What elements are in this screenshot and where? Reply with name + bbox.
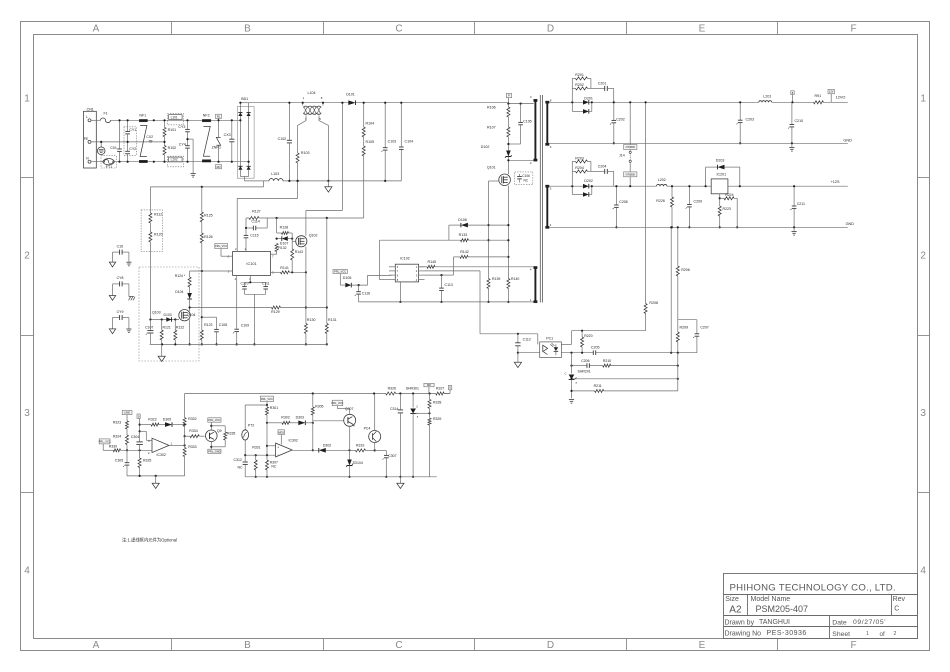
svg-text:R132: R132 — [278, 246, 286, 250]
wire IC101 pin2 to DC- rail — [236, 198, 238, 251]
svg-text:PT2: PT2 — [248, 423, 254, 427]
svg-text:4: 4 — [24, 566, 30, 577]
net label small box above C304 — [137, 414, 140, 418]
svg-text:C114: C114 — [251, 219, 259, 223]
wire opamp2 output row — [292, 449, 319, 451]
resistor R112 — [141, 210, 162, 252]
svg-text:3: 3 — [24, 408, 30, 419]
svg-text:R335: R335 — [227, 432, 235, 436]
svg-text:SHR301: SHR301 — [406, 387, 419, 391]
svg-text:IC201: IC201 — [717, 172, 727, 176]
wire feedback row 1 — [561, 352, 593, 354]
svg-text:L202: L202 — [658, 178, 666, 182]
svg-text:L104: L104 — [308, 91, 316, 95]
wire gate line — [488, 181, 490, 279]
wire R206 tap line — [670, 227, 672, 352]
svg-text:Drawn by: Drawn by — [725, 620, 755, 627]
svg-text:PRL_GND: PRL_GND — [208, 449, 220, 453]
row ticks right — [918, 177, 930, 179]
net label PRL_VCC left — [99, 439, 110, 444]
svg-text:C104: C104 — [405, 140, 414, 144]
svg-text:R140: R140 — [511, 277, 519, 281]
svg-text:6: 6 — [397, 273, 399, 277]
svg-text:R139: R139 — [492, 277, 500, 281]
svg-text:IC302: IC302 — [157, 453, 166, 457]
svg-text:a: a — [417, 416, 419, 419]
svg-text:C203: C203 — [746, 117, 755, 121]
svg-text:C109: C109 — [241, 323, 249, 327]
svg-text:8: 8 — [321, 96, 323, 100]
svg-text:2: 2 — [894, 631, 897, 637]
svg-text:+: + — [277, 445, 279, 449]
svg-text:C206: C206 — [581, 359, 589, 363]
svg-text:R209: R209 — [680, 326, 689, 330]
net label PRL_VCC to D105 — [333, 269, 347, 273]
svg-text:D105: D105 — [343, 276, 352, 280]
svg-text:R331: R331 — [252, 445, 260, 449]
svg-text:C314: C314 — [390, 407, 398, 411]
ground triangle bottom mid — [399, 477, 401, 483]
svg-text:R301: R301 — [270, 406, 278, 410]
svg-text:F: F — [850, 24, 856, 35]
svg-text:6: 6 — [550, 145, 552, 149]
row ticks left — [21, 177, 34, 179]
svg-text:E: E — [699, 640, 706, 651]
svg-text:2: 2 — [530, 161, 532, 165]
svg-text:NT0806: NT0806 — [626, 145, 636, 149]
svg-text:C116: C116 — [362, 292, 370, 296]
svg-text:C210: C210 — [795, 119, 804, 123]
svg-text:CY2: CY2 — [129, 147, 136, 151]
svg-text:D103: D103 — [164, 313, 172, 317]
wire feedback rail R208 — [645, 102, 647, 303]
inductor L102 — [167, 156, 183, 167]
wire Q307 emitter — [349, 426, 351, 450]
capacitor CY1 — [124, 127, 136, 156]
wire IC102 pin8 feed — [379, 240, 381, 279]
wire aux ground rail — [359, 301, 534, 303]
svg-text:R206: R206 — [681, 268, 690, 272]
svg-text:09/27/05': 09/27/05' — [853, 619, 886, 626]
svg-text:7: 7 — [397, 269, 399, 273]
svg-text:R324: R324 — [113, 435, 121, 439]
svg-text:MD: MD — [427, 383, 431, 387]
svg-text:C312: C312 — [234, 458, 242, 462]
svg-text:D203: D203 — [716, 158, 725, 162]
wire L104 pin5 leg — [319, 116, 328, 181]
net label PRL_VCC Q307 — [332, 400, 343, 406]
wire +12S rail — [549, 185, 583, 187]
svg-text:8: 8 — [228, 255, 230, 259]
earth ground symbol — [100, 142, 102, 147]
svg-text:R223: R223 — [723, 207, 731, 211]
wire feedback to optocoupler — [572, 330, 646, 332]
svg-text:R326: R326 — [388, 387, 396, 391]
wire Q307 base — [313, 420, 344, 422]
svg-text:C115: C115 — [250, 233, 258, 237]
svg-text:R143: R143 — [295, 250, 303, 254]
svg-text:D107: D107 — [280, 241, 289, 245]
svg-text:7: 7 — [272, 255, 274, 259]
svg-text:IC101: IC101 — [246, 262, 256, 266]
svg-text:4: 4 — [235, 277, 237, 281]
svg-text:4: 4 — [416, 278, 418, 282]
dashed optional box — [139, 267, 199, 361]
svg-text:J14: J14 — [619, 154, 625, 158]
svg-text:NF2: NF2 — [203, 113, 210, 117]
ground bars under C210 — [791, 143, 793, 147]
wire Q103 gate row — [150, 319, 179, 321]
svg-text:R328: R328 — [433, 400, 441, 404]
svg-text:R124 *: R124 * — [175, 274, 186, 278]
svg-text:5: 5 — [397, 265, 399, 269]
wire DC+ rail — [249, 102, 349, 104]
svg-text:C205: C205 — [591, 346, 600, 350]
svg-text:C113: C113 — [445, 283, 453, 287]
svg-text:3: 3 — [530, 95, 532, 99]
svg-text:SHR201: SHR201 — [578, 370, 591, 374]
svg-text:3: 3 — [148, 439, 150, 443]
wire BD1 output top — [240, 102, 248, 104]
column ticks top — [171, 22, 173, 35]
svg-text:8: 8 — [397, 278, 399, 282]
wire DC- rail — [245, 180, 270, 182]
svg-text:R145: R145 — [428, 260, 437, 264]
svg-text:D202: D202 — [584, 179, 593, 183]
wire bottom section top rail — [185, 393, 386, 395]
svg-text:ZD104: ZD104 — [352, 461, 363, 465]
svg-text:4: 4 — [530, 268, 532, 272]
svg-text:R130: R130 — [307, 318, 316, 322]
svg-text:L: L — [86, 115, 88, 119]
svg-text:+12S: +12S — [831, 180, 840, 184]
svg-text:PRL_VCC: PRL_VCC — [334, 270, 346, 274]
svg-text:R210: R210 — [603, 359, 611, 363]
svg-text:PC4: PC4 — [364, 427, 371, 431]
wire GND rail 1 — [549, 142, 848, 144]
svg-text:D104: D104 — [175, 290, 183, 294]
svg-text:C: C — [395, 640, 402, 651]
svg-text:4: 4 — [920, 566, 926, 577]
svg-text:2: 2 — [416, 269, 418, 273]
svg-text:R141: R141 — [280, 266, 289, 270]
svg-text:C106: C106 — [522, 174, 530, 178]
svg-text:N: N — [86, 157, 89, 161]
svg-text:C305: C305 — [115, 458, 123, 462]
svg-text:R332: R332 — [188, 417, 196, 421]
ground bars CY9 right — [126, 328, 131, 330]
svg-text:NC: NC — [271, 465, 277, 469]
svg-text:PRL_VCC: PRL_VCC — [215, 244, 227, 248]
wire Q102 drain pullup — [341, 103, 343, 211]
net label PRL box top Q9 — [208, 418, 221, 422]
svg-text:1: 1 — [303, 96, 305, 100]
svg-text:R102: R102 — [168, 146, 177, 150]
svg-text:D101: D101 — [346, 92, 355, 96]
svg-text:D303: D303 — [296, 416, 304, 420]
wire PT2 top — [245, 404, 267, 406]
svg-text:C: C — [416, 404, 418, 408]
wire bottom mid rail — [245, 476, 437, 478]
svg-text:D106: D106 — [458, 218, 467, 222]
svg-text:R330: R330 — [109, 444, 117, 448]
svg-text:R120: R120 — [154, 233, 163, 237]
svg-text:A: A — [93, 24, 100, 35]
svg-text:PRL_VCC: PRL_VCC — [208, 418, 220, 422]
jumper J14 — [629, 102, 631, 144]
net label PRL_VCC R301 — [260, 396, 273, 402]
svg-text:1: 1 — [24, 94, 30, 105]
svg-text:C307: C307 — [388, 454, 396, 458]
svg-text:-: - — [277, 452, 278, 456]
svg-text:R327: R327 — [436, 387, 444, 391]
svg-text:Q102: Q102 — [309, 233, 318, 237]
svg-text:Drawing No: Drawing No — [725, 631, 762, 638]
svg-text:R142: R142 — [460, 250, 469, 254]
svg-text:C108: C108 — [219, 323, 227, 327]
svg-text:NF1: NF1 — [139, 113, 146, 117]
svg-text:L103: L103 — [271, 172, 279, 176]
svg-text:R127: R127 — [252, 209, 261, 213]
svg-text:C202: C202 — [616, 117, 625, 121]
net label PRL box bottom Q9 — [208, 449, 221, 453]
svg-text:C: C — [565, 371, 567, 375]
svg-text:PSM205-407: PSM205-407 — [756, 604, 809, 614]
svg-text:a: a — [576, 381, 578, 384]
svg-text:2: 2 — [24, 251, 30, 262]
transformer secondary winding 2 — [546, 186, 548, 227]
svg-text:NT0806: NT0806 — [626, 172, 636, 176]
svg-text:R334: R334 — [189, 429, 197, 433]
svg-text:R325: R325 — [143, 458, 151, 462]
svg-text:Q101: Q101 — [487, 166, 496, 170]
wire N line — [91, 161, 249, 163]
net label 12VO — [828, 89, 834, 93]
ground triangle C16 left — [109, 262, 115, 267]
svg-text:C01: C01 — [110, 146, 117, 150]
svg-text:B: B — [244, 24, 251, 35]
svg-text:2: 2 — [148, 451, 150, 455]
svg-text:FT1: FT1 — [106, 165, 112, 169]
svg-text:R123: R123 — [204, 323, 212, 327]
wire opamp2 plus input — [266, 423, 268, 455]
wire PE return rail — [150, 186, 263, 188]
svg-text:C102: C102 — [278, 137, 287, 141]
inductor L101 — [167, 114, 183, 125]
wire IC302b bottom rail — [245, 454, 275, 456]
wire PE line — [91, 141, 165, 143]
svg-text:1: 1 — [530, 298, 532, 302]
wire IC101 pin3 — [190, 270, 233, 272]
svg-text:C103: C103 — [388, 140, 397, 144]
svg-text:L102: L102 — [171, 158, 178, 162]
svg-text:8: 8 — [550, 98, 552, 102]
wire 12V rectified rail — [549, 101, 583, 103]
svg-text:4: 4 — [550, 223, 552, 227]
svg-text:R106: R106 — [487, 106, 496, 110]
svg-text:3: 3 — [416, 273, 418, 277]
wire feedback row 2 — [572, 365, 587, 367]
svg-text:C112: C112 — [523, 338, 531, 342]
column ticks bottom — [171, 639, 173, 651]
wire DC+ to transformer — [508, 103, 533, 105]
connector CN1 — [84, 111, 97, 168]
ground bars under SHR201 — [569, 399, 574, 401]
wire stub return to DC- — [263, 181, 265, 187]
svg-text:R323: R323 — [113, 421, 121, 425]
svg-text:D201: D201 — [584, 96, 593, 100]
svg-text:IC302: IC302 — [289, 439, 298, 443]
wire left block bottom — [127, 475, 185, 477]
wire SHR301 ref — [418, 412, 430, 414]
chassis ground CY8 — [129, 296, 134, 298]
ground bars C16 right — [126, 261, 131, 263]
svg-text:PHIHONG TECHNOLOGY CO., LTD.: PHIHONG TECHNOLOGY CO., LTD. — [730, 583, 896, 594]
ground triangle under C112 — [514, 362, 521, 367]
svg-text:12VO: 12VO — [836, 95, 846, 99]
wire opamp1 output — [169, 444, 185, 446]
svg-text:Rev: Rev — [893, 596, 906, 603]
svg-text:F: F — [850, 640, 856, 651]
svg-text:A: A — [93, 640, 100, 651]
wire to transformer pin2 — [508, 159, 533, 161]
svg-text:F1: F1 — [104, 112, 108, 116]
svg-text:5: 5 — [550, 186, 552, 190]
svg-text:R329: R329 — [433, 417, 441, 421]
wire L line — [91, 119, 101, 121]
svg-text:of: of — [880, 631, 886, 638]
svg-text:D305: D305 — [163, 417, 171, 421]
svg-text:C207: C207 — [700, 325, 709, 329]
svg-text:PC1: PC1 — [546, 337, 553, 341]
svg-text:E: E — [699, 24, 706, 35]
svg-text:R112: R112 — [154, 212, 162, 216]
svg-text:MD3: MD3 — [279, 430, 285, 434]
svg-text:1: 1 — [171, 441, 173, 445]
svg-text:CX3: CX3 — [224, 133, 231, 137]
net label PWR_VCC to IC101 pin8 — [215, 244, 228, 249]
svg-text:Sheet: Sheet — [832, 631, 850, 638]
svg-text:1: 1 — [920, 94, 926, 105]
wire SHR201 ref row 3 — [572, 378, 678, 380]
svg-text:R133: R133 — [459, 233, 468, 237]
svg-text:R125: R125 — [204, 214, 213, 218]
svg-text:PES-30936: PES-30936 — [767, 630, 807, 637]
svg-text:CN1: CN1 — [87, 107, 94, 111]
net label end box R327 — [444, 393, 450, 395]
svg-text:R333: R333 — [188, 445, 196, 449]
ic IC101 — [233, 252, 271, 276]
svg-text:Q103: Q103 — [152, 310, 161, 314]
svg-text:CY3: CY3 — [178, 125, 185, 129]
svg-text:CY8: CY8 — [117, 276, 124, 280]
svg-text:PRL_VCC: PRL_VCC — [331, 401, 343, 405]
svg-text:1: 1 — [866, 631, 869, 637]
capacitor C106 NC optional — [515, 172, 533, 185]
wire feedback row 4 — [572, 390, 595, 392]
svg-text:C209: C209 — [694, 199, 703, 203]
svg-text:C105: C105 — [523, 120, 532, 124]
svg-text:PRL_VCC: PRL_VCC — [99, 440, 111, 444]
svg-text:RN: RN — [217, 165, 221, 169]
svg-text:BD1: BD1 — [241, 97, 248, 101]
ground triangle CY8 left — [109, 296, 115, 301]
svg-text:R211: R211 — [594, 384, 602, 388]
svg-text:TANGHUI: TANGHUI — [759, 619, 790, 626]
svg-text:12V: 12V — [829, 90, 834, 94]
svg-text:C201: C201 — [598, 82, 607, 86]
svg-text:R131: R131 — [328, 318, 337, 322]
ground bars CY mid — [191, 173, 196, 175]
wire IC102 pin3 node — [425, 274, 442, 276]
svg-text:Q104: Q104 — [187, 313, 196, 317]
svg-text:R220: R220 — [584, 334, 592, 338]
svg-text:PE: PE — [84, 137, 89, 141]
svg-text:R105: R105 — [366, 140, 375, 144]
svg-text:2: 2 — [235, 247, 237, 251]
net label box above R106 — [506, 93, 511, 97]
svg-text:CX2: CX2 — [146, 135, 153, 139]
svg-text:1: 1 — [416, 265, 418, 269]
ground triangle CY9 left — [109, 329, 115, 334]
net label pin8 box — [791, 91, 794, 95]
svg-text:R305: R305 — [315, 404, 323, 408]
svg-text:NC: NC — [238, 466, 244, 470]
svg-text:Q9: Q9 — [217, 429, 222, 433]
svg-text:D: D — [547, 24, 554, 35]
svg-text:C204: C204 — [598, 165, 607, 169]
net label box top right of NF2 — [216, 114, 222, 118]
primary ground triangle — [161, 344, 163, 356]
svg-text:R104: R104 — [366, 122, 375, 126]
svg-text:P: P — [508, 94, 510, 98]
svg-text:C211: C211 — [797, 202, 805, 206]
svg-text:CY9: CY9 — [117, 310, 124, 314]
svg-text:R129: R129 — [271, 310, 280, 314]
svg-text:GND: GND — [846, 222, 855, 226]
ground triangle left block — [155, 476, 157, 483]
svg-text:B: B — [244, 640, 251, 651]
svg-text:5: 5 — [319, 117, 321, 121]
svg-text:R126: R126 — [204, 235, 213, 239]
wire GND rail 2 — [549, 226, 848, 228]
svg-text:C107: C107 — [145, 326, 153, 330]
svg-text:ZNR1: ZNR1 — [212, 146, 221, 150]
wire CY mid to ground — [188, 138, 194, 140]
svg-text:R103: R103 — [301, 151, 310, 155]
ground marker under L104 box — [327, 181, 329, 187]
svg-text:L101: L101 — [171, 115, 178, 119]
svg-text:LINE: LINE — [124, 411, 130, 415]
wire snubber feed — [246, 217, 249, 219]
svg-text:R128: R128 — [280, 226, 289, 230]
svg-text:D302: D302 — [323, 444, 331, 448]
svg-text:R226: R226 — [656, 199, 665, 203]
svg-text:C16: C16 — [117, 244, 123, 248]
svg-text:R302: R302 — [281, 416, 289, 420]
wire BD1 output bottom — [240, 176, 248, 178]
svg-text:D: D — [547, 640, 554, 651]
svg-text:L201: L201 — [763, 94, 771, 98]
svg-text:CY4: CY4 — [179, 142, 186, 146]
svg-text:CY1: CY1 — [129, 128, 136, 132]
net label MD3 box — [278, 430, 285, 435]
svg-text:GND: GND — [843, 139, 852, 143]
svg-text:注:1.虚线框内元件为Optional: 注:1.虚线框内元件为Optional — [122, 537, 177, 544]
svg-text:D102: D102 — [481, 145, 490, 149]
wire primary ground rail — [150, 343, 328, 345]
svg-text:C304: C304 — [131, 435, 139, 439]
